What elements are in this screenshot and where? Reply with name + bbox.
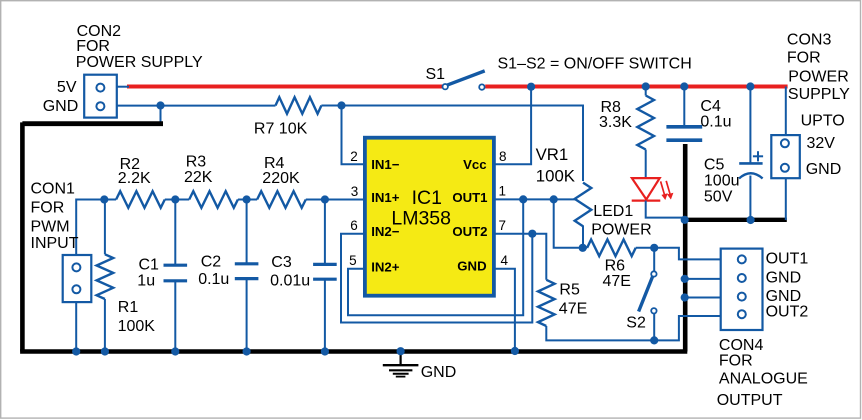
resistor R6 <box>587 240 636 257</box>
svg-text:GND: GND <box>457 258 486 273</box>
node: junction OUT1/VR1 bottom branch <box>550 195 558 203</box>
svg-text:22K: 22K <box>184 169 213 186</box>
node: R1 ground junction <box>101 347 109 355</box>
svg-text:OUT2: OUT2 <box>452 224 487 239</box>
node: junction S2/R5/CON4-OUT2 <box>650 336 658 344</box>
capacitor C5 curved plate <box>739 173 763 178</box>
wire: red +5V rail from CON2 to S1 <box>127 85 442 89</box>
svg-text:0.1u: 0.1u <box>700 113 731 130</box>
wire: OUT1 net to CON4 pin1 <box>654 248 722 260</box>
node: junction R4/C3 <box>321 195 329 203</box>
wire: R2-R3 link <box>165 199 189 201</box>
op-amp IC1 LM358 body <box>365 138 494 296</box>
resistor R7 <box>276 97 322 114</box>
wire: CON3 bottom lead <box>785 177 787 220</box>
capacitor C5 polarity mark <box>753 155 763 157</box>
svg-text:100K: 100K <box>536 167 575 186</box>
svg-text:CON3: CON3 <box>787 32 832 49</box>
wire: C1 top lead <box>174 200 176 266</box>
LED LED1 triangle <box>632 178 660 199</box>
svg-text:IN2−: IN2− <box>371 224 400 239</box>
svg-text:8: 8 <box>499 149 507 164</box>
wire: CON2 GND junction drop to black bus <box>160 106 162 123</box>
svg-text:3: 3 <box>351 184 359 199</box>
svg-text:GND: GND <box>43 98 79 115</box>
svg-text:SUPPLY: SUPPLY <box>788 86 850 103</box>
svg-text:R1: R1 <box>118 299 139 316</box>
svg-text:OUT1: OUT1 <box>766 251 809 268</box>
svg-text:220K: 220K <box>262 170 300 187</box>
wire: red +V rail from S1 to CON3 <box>485 85 787 89</box>
wire: IC pin7 OUT2 to R5 top <box>493 234 546 280</box>
ground symbol <box>400 352 402 366</box>
node: ground symbol junction <box>397 347 405 355</box>
node: C1 ground junction <box>171 347 179 355</box>
wire: C3 top lead <box>324 200 326 265</box>
node: C2 ground junction <box>243 347 251 355</box>
svg-text:3.3K: 3.3K <box>599 114 632 131</box>
wire: CON4 pin2 GND tap <box>685 278 722 280</box>
node: junction R3/R4/C2 <box>243 195 251 203</box>
resistor R2 <box>116 191 165 208</box>
connector CON3 <box>771 135 800 178</box>
svg-text:FOR: FOR <box>76 38 110 55</box>
wire: S2 bottom link <box>653 314 655 341</box>
resistor R5 <box>538 280 555 326</box>
wire: right black ground vertical (C4/LED to rail) <box>683 144 688 352</box>
svg-text:LED1: LED1 <box>593 203 633 220</box>
svg-text:100u: 100u <box>704 172 740 189</box>
capacitor C2 <box>235 262 259 265</box>
svg-text:C3: C3 <box>271 254 292 271</box>
svg-text:5: 5 <box>349 253 357 268</box>
svg-text:Vcc: Vcc <box>463 157 486 172</box>
connector CON1 <box>63 255 92 302</box>
node: C3 ground junction <box>321 347 329 355</box>
switch S2 lever <box>639 276 653 312</box>
potentiometer VR1 body <box>575 183 592 227</box>
connector CON4 <box>721 249 763 330</box>
wire: IC pin4 to ground rail <box>493 269 515 352</box>
resistor R8 <box>637 96 654 150</box>
svg-text:5V: 5V <box>57 79 77 96</box>
wire: R1 bottom lead <box>104 299 106 352</box>
svg-text:S1–S2 = ON/OFF SWITCH: S1–S2 = ON/OFF SWITCH <box>498 56 692 73</box>
svg-text:UPTO: UPTO <box>801 112 845 129</box>
wire: R2 left lead <box>104 199 116 201</box>
node: junction ground/CON4 pin3 <box>681 293 689 301</box>
svg-text:C1: C1 <box>139 256 160 273</box>
svg-text:S1: S1 <box>426 66 446 83</box>
wire: C4 top lead <box>683 87 685 127</box>
svg-text:OUT1: OUT1 <box>452 190 487 205</box>
node: junction ground/CON4 pin2 <box>681 275 689 283</box>
svg-text:C5: C5 <box>704 156 725 173</box>
node: junction red rail / C5 <box>746 82 754 90</box>
svg-text:R6: R6 <box>605 257 626 274</box>
svg-text:C2: C2 <box>201 253 222 270</box>
wire: R7 right to VR1 top <box>321 106 583 182</box>
svg-text:2.2K: 2.2K <box>118 170 151 187</box>
wire: OUT1 branch to VR1 bottom <box>554 199 581 247</box>
resistor R4 <box>257 191 306 208</box>
node: junction R7 / IN1- branch <box>337 101 345 109</box>
svg-text:POWER SUPPLY: POWER SUPPLY <box>76 54 203 71</box>
svg-text:1: 1 <box>499 184 507 199</box>
wire: left black ground bus vertical <box>20 122 25 351</box>
svg-text:2: 2 <box>350 149 358 164</box>
capacitor C5 plus plate <box>739 162 762 165</box>
wire: S2 top link <box>653 248 655 271</box>
svg-text:R5: R5 <box>559 282 580 299</box>
node: junction red rail / Vcc <box>527 83 535 91</box>
svg-text:47E: 47E <box>603 273 631 290</box>
switch S1 contacts <box>443 84 448 89</box>
svg-text:GND: GND <box>766 270 802 287</box>
resistor R3 <box>189 191 238 208</box>
svg-text:PWM: PWM <box>31 218 70 235</box>
svg-text:6: 6 <box>350 218 358 233</box>
wire: R8 to LED1 <box>645 150 647 180</box>
node: junction R6/S2/CON4-OUT1 <box>650 244 658 252</box>
wire: Vcc pin 8 <box>493 87 531 165</box>
svg-text:50V: 50V <box>704 188 733 205</box>
wire: CON4 pin3 GND tap <box>685 297 722 299</box>
svg-text:IN2+: IN2+ <box>371 260 400 275</box>
wire: R4 to IC pin3 <box>306 199 366 201</box>
switch S1 lever <box>447 71 485 85</box>
wire: LED1 cathode to ground line <box>646 201 684 218</box>
wire: OUT2 to IN2- loop under IC <box>341 234 532 323</box>
resistor R1 <box>97 254 114 299</box>
svg-text:FOR: FOR <box>31 199 65 216</box>
switch S2 contacts <box>651 271 656 276</box>
svg-text:VR1: VR1 <box>536 145 569 164</box>
svg-text:GND: GND <box>421 364 457 381</box>
wire: CON1 bottom pin to ground rail <box>75 302 77 351</box>
svg-text:INPUT: INPUT <box>31 235 79 252</box>
wire: R3-R4 link <box>238 199 257 201</box>
wire: R1 top lead <box>104 200 106 255</box>
wire: R8 top lead <box>645 87 647 96</box>
svg-text:R7 10K: R7 10K <box>254 120 308 137</box>
wire: branch to IC pin2 <box>342 106 367 165</box>
node: junction red rail / C4 <box>680 82 688 90</box>
capacitor C3 <box>313 263 337 266</box>
svg-text:0.1u: 0.1u <box>198 271 229 288</box>
wire: bottom black ground rail <box>20 349 687 353</box>
node: junction R1/R2 <box>100 195 108 203</box>
svg-text:IC1: IC1 <box>412 187 442 209</box>
svg-text:IN1−: IN1− <box>371 157 400 172</box>
svg-text:1u: 1u <box>137 273 155 290</box>
wire: C2 bottom lead <box>246 279 248 352</box>
wire: IC pin1 OUT1 to VR1 wiper <box>493 198 575 200</box>
svg-text:S2: S2 <box>626 315 646 332</box>
svg-text:7: 7 <box>499 218 507 233</box>
wire: black ground bus from CON2 to left edge <box>22 121 163 126</box>
node: C5 ground junction <box>747 216 755 224</box>
node: junction red rail / R8 <box>642 82 650 90</box>
wire: R6 left lead <box>583 247 587 249</box>
wire: R5 bottom to S2 bottom <box>546 326 654 340</box>
capacitor C4 <box>666 125 702 129</box>
LED LED1 light arrows <box>661 181 665 195</box>
wire: CON2 GND pin wire to R7 <box>117 105 276 107</box>
wire: C3 bottom lead <box>324 279 326 351</box>
connector CON2 <box>84 75 117 118</box>
node: junction VR1/R6 <box>579 244 587 252</box>
svg-text:100K: 100K <box>118 318 156 335</box>
svg-text:GND: GND <box>806 161 842 178</box>
svg-text:47E: 47E <box>559 301 587 318</box>
svg-text:FOR: FOR <box>719 352 753 369</box>
wire: C1 bottom lead <box>174 281 176 352</box>
node: junction CON2 GND / black bus <box>156 101 164 109</box>
wire: C5 bottom lead <box>749 176 751 221</box>
wire: CON3 top lead <box>785 87 787 137</box>
wire: VR1 bottom lead <box>582 226 584 248</box>
svg-text:GND: GND <box>766 288 802 305</box>
svg-text:FOR: FOR <box>787 50 821 67</box>
wire: OUT2 net to CON4 pin4 <box>654 316 722 340</box>
svg-text:ANALOGUE: ANALOGUE <box>719 371 808 388</box>
svg-text:CON1: CON1 <box>31 180 76 197</box>
wire: OUT1 to IN2+ loop under IC <box>348 199 523 315</box>
node: junction OUT1/IN2+ branch <box>519 195 527 203</box>
node: junction OUT2/IN2- branch <box>528 230 536 238</box>
LED LED1 cathode bar <box>632 200 661 202</box>
node: CON1 ground junction <box>72 347 80 355</box>
wire: black ground branch under C5 and CON3 <box>683 218 787 222</box>
svg-text:0.01u: 0.01u <box>270 273 310 290</box>
wire: R6 right lead <box>636 247 655 249</box>
svg-text:OUTPUT: OUTPUT <box>717 392 783 409</box>
node: IC pin4 ground junction <box>511 347 519 355</box>
svg-text:IN1+: IN1+ <box>371 190 400 205</box>
wire: CON2 5V pin stub <box>117 86 129 88</box>
wire: CON1 to R2 <box>76 200 106 257</box>
svg-text:POWER: POWER <box>788 68 848 85</box>
svg-text:LM358: LM358 <box>391 207 451 229</box>
svg-text:32V: 32V <box>807 135 836 152</box>
wire: C2 top lead <box>246 200 248 264</box>
node: junction LED/C4 ground <box>681 216 689 224</box>
svg-text:OUT2: OUT2 <box>766 304 809 321</box>
capacitor C1 <box>164 264 188 267</box>
svg-text:4: 4 <box>501 253 509 268</box>
node: junction R2/R3/C1 <box>171 195 179 203</box>
svg-text:POWER: POWER <box>591 222 651 239</box>
wire: C5 top lead <box>749 87 751 164</box>
